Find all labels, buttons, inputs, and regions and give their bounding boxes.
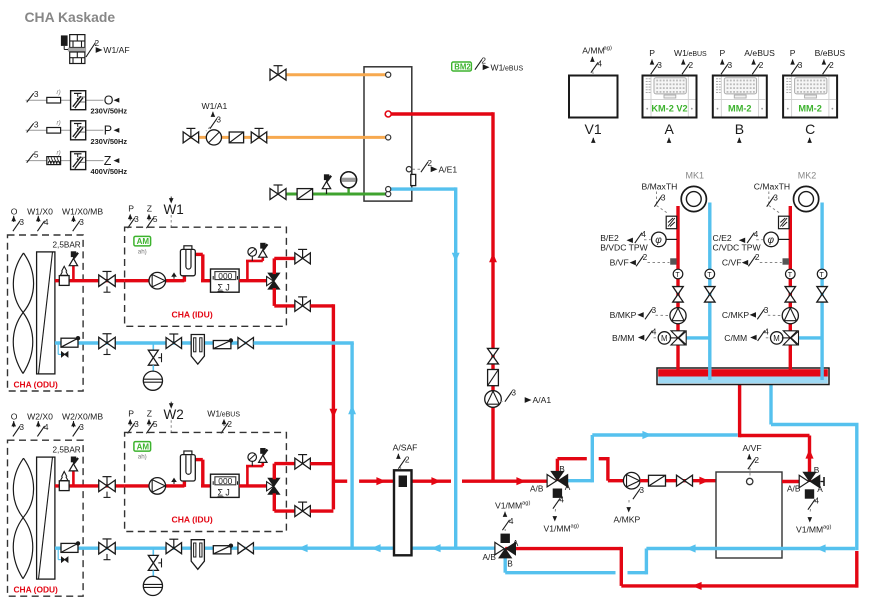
vessel (unit 1) [180,246,195,276]
gauge safety branch (unit 2) [246,448,267,486]
pipe red bottom loop [505,547,858,588]
svg-text:ag): ag) [604,46,612,52]
valve IDU top capped (unit 1) [295,249,311,264]
svg-text:A: A [565,482,571,492]
valve blue B (unit 1) [166,334,182,349]
pump IDU (unit 2) [149,478,166,495]
expansion vessel (unit 2) [59,472,69,491]
arrow red bottom loop [692,582,702,590]
svg-text:2: 2 [481,56,486,66]
thermostat TW B [666,216,677,229]
svg-text:3: 3 [661,193,666,203]
pipe orange top [286,73,386,76]
flow switch ODU (unit 2) [61,541,80,552]
pipe red MKP [640,479,716,482]
svg-text:Z: Z [147,204,152,214]
svg-text:W2/X0/MB: W2/X0/MB [62,412,103,422]
label W1/AF [86,38,130,57]
pump MK1 [670,308,686,324]
svg-text:W1: W1 [674,48,687,58]
svg-text:2: 2 [427,158,432,168]
pipe blue unit1 to riser [254,341,354,344]
port buffer A/VF [747,478,753,484]
svg-text:/eBUS: /eBUS [687,51,708,58]
label Z (unit 1) [146,204,158,229]
pipe red collector vertical [310,304,347,511]
label W1/eBUS (unit 2) [207,409,240,434]
svg-text:/eBUS: /eBUS [503,65,524,72]
svg-text:MM-2: MM-2 [798,104,821,114]
valve orange top [270,66,286,81]
A/SAF vessel [394,470,412,555]
svg-text:W1: W1 [491,62,504,72]
three-way valve IDU (unit 1) [267,273,280,289]
pipe orange mid [184,136,386,139]
label 2,5BAR (unit 1) [53,241,81,250]
pipe red tank to valve2 [782,480,800,483]
svg-text:4: 4 [641,229,646,239]
pipe red vessel riser (unit 1) [184,254,210,281]
svg-text:3: 3 [134,419,139,429]
sensor VF B [670,258,676,264]
svg-text:φ: φ [655,235,662,246]
svg-text:A/eBUS: A/eBUS [744,48,775,58]
svg-text:P: P [128,204,134,214]
mixer valve B/MM [658,331,710,345]
svg-text:C/VDC TPW: C/VDC TPW [713,242,762,252]
pipe red vessel riser (unit 2) [184,460,210,487]
pump IDU (unit 1) [149,272,166,289]
label valve2 ports [787,465,823,494]
air vent (unit 1) [171,272,177,278]
power row P 230V [26,119,128,146]
flow switch blue (unit 1) [213,338,233,348]
label V1 [585,121,602,143]
flow switch ODU (unit 1) [61,336,80,347]
pipe blue MK1 riser [708,203,711,381]
svg-text:3: 3 [639,485,644,495]
controller MM-2 (B) [713,48,775,143]
svg-text:C/MaxTH: C/MaxTH [754,182,790,192]
pipe red IDU top out (unit 1) [274,258,294,274]
svg-text:W1/X0: W1/X0 [27,207,53,217]
label C/MKP [722,305,781,320]
svg-text:4: 4 [559,495,564,505]
port green [386,191,391,196]
valve ODU blue (unit 1) [99,334,116,355]
pipe blue return right [646,385,858,550]
svg-text:2: 2 [227,419,232,429]
CHA IDU box (unit 1) [125,227,287,326]
pipe red IDU bottom out (unit 2) [274,493,294,511]
svg-text:KM-2 V2: KM-2 V2 [651,104,687,114]
svg-text:2: 2 [754,455,759,465]
pipe blue tank return [391,187,456,548]
pipe red IDU bottom out (unit 1) [274,288,294,306]
svg-text:4: 4 [44,422,49,432]
svg-text:3: 3 [134,214,139,224]
svg-text:Z: Z [147,409,152,419]
pipe blue valve3 B jog [505,549,646,575]
flow switch blue (unit 2) [213,544,233,554]
svg-text:230V/50Hz: 230V/50Hz [91,107,128,116]
label valve1 ports [530,464,571,494]
filter A/A1 [488,370,499,386]
svg-text:M: M [661,334,668,343]
power row Z 400V [26,150,128,177]
pipe red IDU top out (unit 2) [274,464,294,480]
svg-text:2: 2 [689,60,694,70]
three-way valve V1/MM-3 [495,534,516,558]
pipe red main 2 [462,480,549,483]
svg-text:A/B: A/B [530,484,544,494]
svg-text:4: 4 [44,217,49,227]
svg-text:P: P [790,48,796,58]
pipe red IDU main (unit 2) [125,484,185,487]
svg-text:ag): ag) [823,525,831,531]
svg-text:2,5BAR: 2,5BAR [53,241,81,250]
svg-text:CHA (IDU): CHA (IDU) [172,515,213,525]
label B/MaxTH [642,182,678,214]
svg-text:r): r) [57,150,61,157]
filter W1/A1 [229,132,243,143]
thermometer blue MK2 [817,269,827,279]
pipe blue valve1 A out [560,435,738,482]
svg-text:ah): ah) [138,454,147,461]
valve ODU red (unit 2) [99,477,116,498]
tank DHW [364,67,412,201]
manifold [657,368,829,385]
svg-text:Σ J: Σ J [218,282,230,292]
svg-text:A/A1: A/A1 [533,395,552,405]
label C/VF [722,252,782,267]
svg-text:V1/MM: V1/MM [495,501,522,511]
svg-text:CHA Kaskade: CHA Kaskade [25,9,116,25]
svg-text:W1/AF: W1/AF [103,45,129,55]
svg-text:3: 3 [773,193,778,203]
svg-text:O: O [104,93,114,107]
svg-text:A: A [665,121,675,137]
label C/MaxTH [754,182,790,214]
svg-text:000: 000 [218,476,232,486]
arrow red collector down [329,409,337,418]
pipe green [286,193,386,196]
module V1 box [569,76,618,118]
svg-text:3: 3 [657,60,662,70]
svg-text:B/eBUS: B/eBUS [815,48,846,58]
safety valve ODU (unit 1) [69,251,78,280]
label A/A1 [500,388,551,406]
svg-text:230V/50Hz: 230V/50Hz [91,137,128,146]
label P (unit 2) [128,409,140,434]
thermometer blue MK1 [705,269,715,279]
port A/E1 [406,167,411,172]
arrow blue return right 2 [686,544,696,552]
thermometer red MK1 [673,269,683,279]
svg-text:φ: φ [768,235,775,246]
svg-text:2: 2 [405,455,410,465]
svg-text:3: 3 [79,217,84,227]
svg-text:B: B [559,464,565,474]
three-way valve IDU (unit 2) [267,478,280,494]
svg-text:/eBUS: /eBUS [220,412,241,419]
CHA ODU box (unit 2) [8,440,84,596]
svg-text:AM: AM [137,237,150,246]
valve W1A1 left [183,128,199,143]
heat meter (unit 1) [211,269,240,292]
heating circuit MK1 [681,186,706,211]
pipe red main 1 [359,480,451,483]
label A/SAF [393,443,418,471]
label A/VF [743,443,762,477]
pipe red meter out (unit 1) [239,279,269,282]
svg-text:O: O [11,412,18,422]
svg-text:A/B: A/B [483,552,497,562]
svg-text:r): r) [57,89,61,96]
svg-text:400V/50Hz: 400V/50Hz [91,167,128,176]
svg-text:B/VDC TPW: B/VDC TPW [600,242,648,252]
pipe red ODU out (unit 1) [55,279,125,282]
arrow blue return right 1 [816,544,826,552]
svg-text:P: P [104,124,112,138]
safety valve green [322,174,331,194]
svg-text:W2/X0: W2/X0 [27,412,53,422]
svg-text:W2: W2 [164,407,184,422]
svg-text:A/MKP: A/MKP [614,515,641,525]
label MK2 [798,171,817,181]
svg-text:W1: W1 [164,202,184,217]
svg-text:T: T [675,272,680,279]
arrow red A/A1 up [489,253,497,262]
pipe red IDU main (unit 1) [125,279,185,282]
svg-text:O: O [11,207,18,217]
label O (unit 2) [11,412,25,437]
valve W1A1 right [251,128,267,143]
label B/MKP [610,305,669,320]
label W2/X0 [27,412,53,437]
svg-text:MM-2: MM-2 [728,104,751,114]
valve red MK2 [785,287,796,303]
svg-text:W1/A1: W1/A1 [202,101,228,111]
svg-text:2: 2 [759,60,764,70]
svg-text:W1: W1 [207,409,220,419]
svg-text:3: 3 [798,60,803,70]
svg-text:Σ J: Σ J [218,488,230,498]
pipe blue unit1 riser [350,343,353,548]
label 2,5BAR (unit 2) [53,446,81,455]
arrow blue junction right [642,431,652,439]
svg-text:A/B: A/B [787,484,801,494]
svg-text:3: 3 [19,422,24,432]
svg-text:000: 000 [218,271,232,281]
safety valve ODU (unit 2) [69,457,78,486]
valve A/A1 [488,348,499,364]
AM module (unit 1) [134,236,151,255]
controller KM-2 V2 (A) [643,48,708,143]
valve blue C (unit 2) [238,543,254,554]
pipe red meter out (unit 2) [239,484,269,487]
svg-text:2: 2 [755,252,760,262]
valve blue MK2 [817,287,828,303]
svg-text:2: 2 [829,60,834,70]
port blue [386,187,391,192]
svg-text:V1: V1 [585,121,602,137]
thermostat TW C [779,216,790,229]
filter green [297,189,313,200]
valve blue C (unit 1) [238,338,254,349]
label C/MM [724,327,769,343]
label W1/X0 [27,207,53,232]
svg-text:3: 3 [34,89,39,99]
port mid [386,135,391,140]
arrow blue return 3 [431,544,441,552]
drain bowtie ODU (unit 2) [58,549,68,562]
valve ODU red (unit 1) [99,271,116,292]
svg-text:CHA (ODU): CHA (ODU) [14,380,59,390]
pipe blue MK2 riser [820,203,823,381]
svg-text:P: P [720,48,726,58]
label valve3 ports [483,538,519,569]
label CHA (IDU) (unit 2) [172,515,213,525]
module BM2 [452,56,524,73]
svg-text:3: 3 [728,60,733,70]
arrow blue return 1 [298,544,308,552]
svg-text:3: 3 [79,422,84,432]
label valve2 V1/MM [796,496,831,535]
label B/MM [612,327,657,343]
heat meter (unit 2) [211,474,240,497]
pipe red MK1 riser [676,206,679,371]
AM module (unit 2) [134,442,151,461]
label CHA (ODU) (unit 1) [14,380,59,390]
label O (unit 1) [11,207,25,232]
dirt separator (unit 2) [191,540,204,570]
svg-text:ag): ag) [571,524,579,530]
svg-text:2: 2 [95,38,100,48]
svg-text:ah): ah) [138,248,147,255]
port top [386,72,391,77]
label W1/X0/MB [62,207,103,232]
CHA ODU box (unit 1) [8,235,84,391]
label A/E1 [413,158,458,174]
sensor VF C [783,258,789,264]
svg-text:3: 3 [34,119,39,129]
svg-text:r): r) [57,119,61,126]
svg-text:C/MM: C/MM [724,333,747,343]
svg-text:BM2: BM2 [454,63,471,72]
svg-text:B: B [735,121,744,137]
arrow red main 3 [516,477,526,485]
valve IDU bottom (unit 1) [295,297,311,312]
svg-text:5: 5 [34,150,39,160]
arrow red main 2 [431,477,441,485]
svg-text:P: P [128,409,134,419]
fan (unit 2) [13,458,33,579]
svg-text:A: A [513,538,519,548]
valve A/MKP [677,475,693,486]
label Z (unit 2) [146,409,158,434]
svg-text:T: T [788,272,793,279]
svg-text:C/VF: C/VF [722,257,742,267]
arrow blue unit1 riser up [348,405,356,414]
pipe red ODU out (unit 2) [55,484,125,487]
label A/MKP [614,485,645,525]
air vent (unit 2) [171,478,177,484]
pipe blue return main [254,547,500,550]
drain safety group (unit 1) [143,343,162,390]
svg-text:Z: Z [104,154,112,168]
gauge safety branch (unit 1) [246,243,267,281]
svg-text:A/E1: A/E1 [439,164,458,174]
label C/E2 [713,229,763,252]
heating element A/E1 [411,174,416,185]
svg-text:4: 4 [754,229,759,239]
arrow blue return 2 [371,544,381,552]
drain bowtie ODU (unit 1) [58,344,68,357]
svg-text:5: 5 [153,214,158,224]
svg-text:A/VF: A/VF [743,443,762,453]
svg-text:CHA (ODU): CHA (ODU) [14,585,59,595]
svg-text:V1/MM: V1/MM [796,525,823,535]
svg-text:3: 3 [764,305,769,315]
svg-text:2: 2 [643,252,648,262]
gauge green [341,172,357,194]
svg-text:M: M [773,334,780,343]
svg-text:CHA (IDU): CHA (IDU) [172,310,213,320]
svg-text:A/SAF: A/SAF [393,443,418,453]
mixer valve C/MM [771,331,823,345]
valve ODU blue (unit 2) [99,539,116,560]
svg-text:W1/X0/MB: W1/X0/MB [62,207,103,217]
svg-text:4: 4 [764,327,769,337]
label W2 [164,402,184,433]
label W2/X0/MB [62,412,103,437]
svg-text:ag): ag) [522,501,530,507]
arrow blue tank return down [452,253,460,262]
heat exchanger (unit 1) [37,252,55,374]
valve IDU bottom (unit 2) [295,502,311,516]
valve red MK1 [673,287,684,303]
svg-text:B/MM: B/MM [612,333,634,343]
svg-text:A: A [817,484,823,494]
valve green [270,185,286,200]
arrow red MKP [699,477,709,485]
svg-text:B: B [814,465,820,475]
pipe blue ODU out (unit 2) [55,547,246,550]
svg-text:3: 3 [216,115,221,125]
pump A/A1 [485,391,502,408]
label valve3 V1/MM [495,501,530,532]
svg-text:C: C [805,121,815,137]
svg-text:A/MM: A/MM [582,46,604,56]
svg-text:4: 4 [597,59,602,69]
dirt separator (unit 1) [191,335,204,365]
controller MM-2 (C) [783,48,845,143]
power row O 230V [26,89,128,116]
label valve1 V1/MM [544,495,579,534]
svg-text:5: 5 [153,419,158,429]
label W1 [164,197,184,228]
heating circuit MK2 [794,186,819,211]
svg-text:MK2: MK2 [798,171,817,181]
label MK1 [686,171,705,181]
sensor E2 B [652,232,678,247]
port red [385,111,391,117]
svg-text:4: 4 [814,496,819,506]
vessel (unit 2) [180,451,195,481]
svg-text:C/MKP: C/MKP [722,310,749,320]
svg-text:AM: AM [137,442,150,451]
